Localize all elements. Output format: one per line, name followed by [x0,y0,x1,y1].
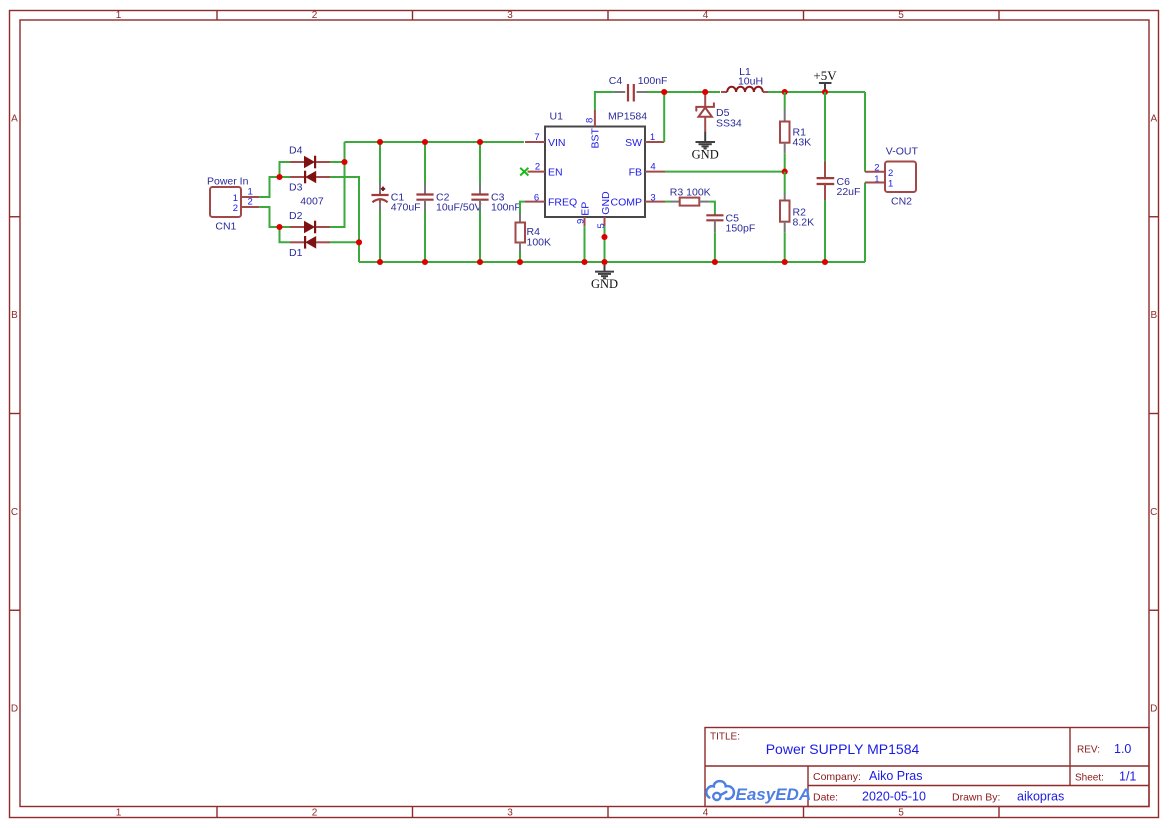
node: dot C6 bottom [822,259,828,265]
node: dot EP bottom [581,259,587,265]
power symbol +5V [813,68,837,89]
CN1 pin 2 stub [241,206,259,208]
node: junction dot D1 anode [356,239,362,245]
wire +5V rail down to CN2 pin2 [864,92,866,172]
svg-text:GND: GND [600,191,612,215]
wire junction up to D4 anode [280,162,291,177]
pin 8 BST stub [585,110,596,127]
svg-text:Power SUPPLY MP1584: Power SUPPLY MP1584 [766,741,920,757]
svg-text:D: D [1150,704,1157,715]
pin 9 EP stub [576,217,587,226]
pin 6 FREQ stub [525,193,545,204]
node: junction dot D4 cathode [341,159,347,165]
svg-text:6: 6 [534,193,539,204]
node: dot R2 bottom [782,259,788,265]
wire CN1 pin2 to D2/D1 junction [259,207,279,227]
svg-text:1: 1 [116,10,122,21]
node: dot FB/R1/R2 junction [782,169,788,175]
svg-text:A: A [11,114,18,125]
svg-text:100nF: 100nF [491,202,521,214]
node: junction dot CN1 pin1/D4/D3 [276,174,282,180]
svg-text:V-OUT: V-OUT [886,146,919,158]
svg-text:10uH: 10uH [738,75,763,87]
wire CN1 pin1 to D3/D4 junction [259,177,279,197]
svg-text:REV:: REV: [1077,745,1100,756]
svg-text:22uF: 22uF [837,186,861,198]
wire GND bottom rail [359,261,865,263]
capacitor C5 [706,213,755,263]
svg-text:1: 1 [116,808,122,819]
resistor R1 [780,92,811,172]
svg-text:43K: 43K [793,137,812,149]
svg-text:R3 100K: R3 100K [670,186,711,198]
capacitor C4 [609,75,668,102]
svg-text:5: 5 [898,808,904,819]
svg-text:GND: GND [591,277,618,291]
svg-text:100K: 100K [527,236,552,248]
diode D3 [289,171,330,194]
ground symbol below D5 [692,131,719,161]
wire EP to ground rail [584,226,586,262]
svg-text:7: 7 [534,132,539,143]
svg-text:2: 2 [248,197,253,208]
title block [705,728,1149,807]
svg-text:B: B [1150,310,1157,321]
wire C4 to SW junction and D5 [647,91,720,93]
svg-text:9: 9 [576,219,587,224]
svg-text:1.0: 1.0 [1114,742,1131,756]
wire BST to top rail [595,92,614,110]
wire ground rail up to CN2 pin1 [864,183,866,263]
svg-text:D3: D3 [289,182,303,194]
svg-text:1/1: 1/1 [1119,770,1136,784]
svg-text:VIN: VIN [548,137,566,149]
svg-text:3: 3 [507,10,513,21]
svg-text:8.2K: 8.2K [793,217,815,229]
svg-text:EasyEDA: EasyEDA [736,785,812,804]
node: dot C1 top [377,139,383,145]
svg-text:U1: U1 [550,111,564,123]
svg-text:B: B [11,310,18,321]
svg-text:A: A [1150,114,1157,125]
capacitor C2 [416,142,481,262]
svg-text:BST: BST [589,127,601,148]
pin 5 GND stub [596,217,607,229]
svg-text:Date:: Date: [813,791,838,803]
node: dot on GND pin wire [601,234,607,240]
EasyEDA logo [706,781,811,804]
svg-text:3: 3 [650,193,655,204]
connector CN2 V-OUT [874,146,918,208]
svg-text:1: 1 [650,132,655,143]
svg-text:GND: GND [692,148,719,162]
CN1 pin 1 stub [241,196,259,198]
wire SW up to top rail [663,92,665,142]
svg-text:2: 2 [888,168,893,179]
diode D2 [289,210,330,234]
svg-text:Aiko Pras: Aiko Pras [869,769,923,783]
diode D1 [289,236,330,259]
pin 7 VIN stub [525,132,545,143]
wire L1 to +5V rail [768,91,865,93]
pin 2 EN stub [528,162,546,173]
svg-text:10uF/50V: 10uF/50V [436,202,482,214]
wire junction down to D1 cathode [280,227,291,242]
wire to D2 anode [280,226,291,228]
svg-text:Sheet:: Sheet: [1075,773,1104,784]
node: dot R4 bottom [517,259,523,265]
node: junction dot CN1 pin2/D2/D1 [276,224,282,230]
node: dot C1 bottom [377,259,383,265]
svg-text:FB: FB [629,167,642,179]
inductor L1 [721,66,769,92]
svg-text:D2: D2 [289,210,303,222]
svg-text:3: 3 [507,808,513,819]
capacitor C6 [817,92,861,262]
ground symbol GND below rail [591,265,618,291]
wire VIN rail [345,141,525,143]
resistor R4 [516,202,552,262]
svg-text:CN2: CN2 [891,195,912,207]
svg-text:2: 2 [312,808,318,819]
svg-text:aikopras: aikopras [1017,789,1064,803]
svg-text:C: C [11,507,18,518]
svg-text:EP: EP [580,202,592,216]
svg-text:EN: EN [548,167,563,179]
svg-text:FREQ: FREQ [548,197,577,209]
svg-text:SS34: SS34 [716,117,742,129]
no-connect X on EN [520,168,528,176]
resistor R2 [780,172,814,262]
node: dot GND pin at rail [601,259,607,265]
node: dot +5V / C6 junction [822,89,828,95]
wire + vertical (D4/D2 cathodes to VIN rail) [330,142,345,227]
svg-text:4007: 4007 [300,196,324,208]
node: dot C2 top [422,139,428,145]
svg-text:C: C [1150,507,1157,518]
svg-text:1: 1 [888,179,893,190]
svg-text:TITLE:: TITLE: [710,732,740,743]
svg-text:SW: SW [625,137,642,149]
CN2 pin 1 stub [865,182,885,184]
op-amp U1 MP1584 body [545,111,647,218]
node: dot C2 bottom [422,259,428,265]
capacitor C1 [371,142,420,262]
svg-text:2: 2 [233,203,238,214]
node: dot D5 at rail [702,89,708,95]
node: dot SW junction [661,89,667,95]
svg-text:4: 4 [703,808,709,819]
svg-text:2: 2 [535,162,540,173]
pin 1 SW stub [645,132,664,143]
pin 3 COMP stub [645,193,665,204]
wire FB to divider junction [665,171,785,173]
wire R3 to C5 [709,202,715,214]
node: dot R1 top junction [782,89,788,95]
svg-text:2020-05-10: 2020-05-10 [862,789,926,803]
svg-text:Company:: Company: [813,771,861,783]
capacitor C3 [471,142,520,262]
svg-text:D: D [11,704,18,715]
pin 4 FB stub [645,162,665,173]
svg-text:Drawn By:: Drawn By: [952,791,1000,803]
svg-text:COMP: COMP [611,197,643,209]
node: dot C3 bottom [477,259,483,265]
svg-text:CN1: CN1 [215,221,236,233]
svg-text:+5V: +5V [813,68,837,83]
CN2 pin 2 stub [865,171,885,173]
svg-text:150pF: 150pF [726,223,756,235]
svg-text:5: 5 [898,10,904,21]
svg-text:470uF: 470uF [391,202,421,214]
node: dot C3 top [477,139,483,145]
diode D5 SS34 [696,92,742,131]
diode D4 [289,145,330,169]
wire GND pin to ground rail [604,226,606,262]
svg-text:Power In: Power In [207,176,249,188]
wire to D3 cathode [280,176,291,178]
connector CN1 Power In [207,176,253,233]
wire D1 anode to ground vertical [330,241,359,243]
svg-text:100nF: 100nF [638,75,668,87]
wire D4 cathode to + vertical [330,161,345,163]
svg-text:4: 4 [703,10,709,21]
svg-text:D1: D1 [289,247,303,259]
svg-text:MP1584: MP1584 [608,111,647,123]
wire D3 anode to ground vertical [330,177,359,262]
svg-text:4: 4 [650,162,655,173]
svg-text:C4: C4 [609,75,623,87]
node: dot C5 bottom [712,259,718,265]
resistor R3 [665,186,711,205]
svg-text:2: 2 [312,10,318,21]
svg-text:8: 8 [585,118,596,123]
svg-text:D4: D4 [289,145,303,157]
